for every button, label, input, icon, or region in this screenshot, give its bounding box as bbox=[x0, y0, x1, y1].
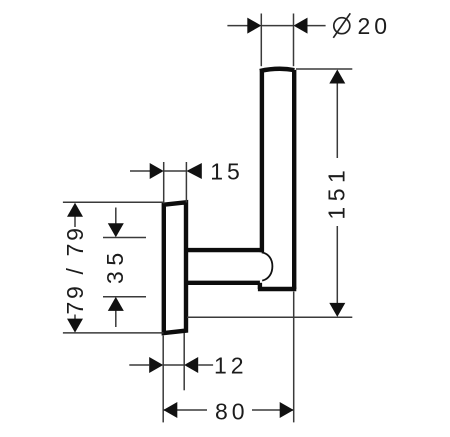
dim 35: bottom stem bbox=[115, 311, 117, 328]
arm/rod fillet arc bbox=[262, 252, 273, 280]
dim 15: arrow left bbox=[150, 163, 164, 179]
dim dia20: arrow right bbox=[294, 18, 308, 34]
dim 151: bottom extension bbox=[187, 316, 352, 318]
dim dia20: mid line bbox=[261, 25, 293, 27]
dim 15: mid line bbox=[164, 170, 187, 172]
rod right edge bbox=[292, 70, 296, 289]
dim 35: top stub bbox=[103, 237, 146, 239]
dim 12: arrow left bbox=[149, 357, 163, 373]
dim 12: extension left (shared with 80) bbox=[162, 336, 164, 423]
dia symbol bbox=[334, 18, 350, 34]
dim 79/79: arrow down bbox=[67, 319, 83, 333]
dim 79/79: bottom extension bbox=[63, 332, 164, 334]
dim 80: arrow left bbox=[163, 402, 177, 418]
dim 12: left tail bbox=[129, 364, 149, 366]
svg-text:15: 15 bbox=[210, 159, 244, 185]
dim 12: right tail bbox=[198, 364, 213, 366]
dim dia20: extension line right bbox=[293, 14, 295, 67]
dim 35: arrow up bbox=[108, 297, 124, 311]
dim 15: arrow right bbox=[186, 163, 201, 179]
svg-text:12: 12 bbox=[214, 352, 248, 378]
dim 15: extension left bbox=[163, 162, 165, 204]
dim 79/79: top extension bbox=[63, 201, 164, 203]
rod bottom cap bbox=[258, 287, 296, 291]
dim 79/79: arrow up bbox=[67, 203, 83, 217]
dim dia20: right tail bbox=[307, 25, 326, 27]
dim 151: arrow down bbox=[329, 303, 345, 317]
dim 151: top extension bbox=[296, 68, 352, 70]
dim 79/79: stem lower bbox=[74, 315, 76, 320]
svg-text:79 / 79: 79 / 79 bbox=[62, 226, 88, 315]
dim 15: left tail bbox=[130, 170, 150, 172]
dim 35: arrow down bbox=[108, 223, 124, 237]
svg-text:20: 20 bbox=[358, 13, 392, 39]
dim 80: mid line right bbox=[252, 409, 294, 411]
dim 35: bottom stub bbox=[103, 296, 146, 298]
dim 151: stem upper bbox=[336, 83, 338, 159]
svg-text:35: 35 bbox=[102, 247, 128, 284]
dim 15: extension right bbox=[185, 162, 187, 203]
dim 80: mid line left bbox=[163, 409, 207, 411]
dim 151: arrow up bbox=[329, 70, 345, 84]
dim 151: stem lower bbox=[336, 226, 338, 304]
dim 79/79: stem upper bbox=[74, 216, 76, 227]
wall plate outline bbox=[164, 202, 186, 333]
dim 12: mid line bbox=[163, 364, 184, 366]
arm bottom edge bbox=[186, 281, 260, 285]
dim 80: arrow right bbox=[280, 402, 294, 418]
dim dia20: arrow left bbox=[247, 18, 261, 34]
rod top cap bbox=[260, 69, 295, 71]
arm-to-rod step bbox=[258, 283, 262, 289]
arm top edge bbox=[186, 248, 263, 252]
dim 12: extension right bbox=[183, 333, 185, 390]
svg-text:151: 151 bbox=[324, 165, 350, 220]
rod left edge bbox=[260, 71, 264, 253]
dim dia20: extension line left bbox=[260, 14, 262, 67]
dim dia20: left tail bbox=[227, 25, 248, 27]
dim 80: right extension bbox=[293, 292, 295, 423]
dim 12: arrow right bbox=[184, 357, 198, 373]
dim 35: top stem bbox=[115, 208, 117, 225]
svg-text:80: 80 bbox=[215, 399, 249, 425]
